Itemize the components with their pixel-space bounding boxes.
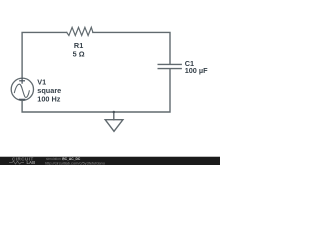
svg-text:100 µF: 100 µF <box>185 66 208 75</box>
svg-text:V1: V1 <box>37 77 46 86</box>
svg-text:LAB: LAB <box>27 160 36 165</box>
svg-text:100 Hz: 100 Hz <box>37 94 60 103</box>
svg-text:http://circuitlab.com/c/5y3fef: http://circuitlab.com/c/5y3fefufdano <box>45 160 105 165</box>
svg-text:5 Ω: 5 Ω <box>73 49 85 58</box>
